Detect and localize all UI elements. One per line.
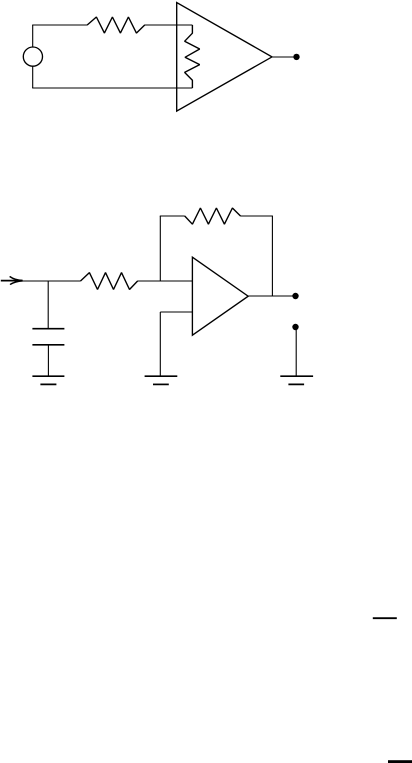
wire [32, 25, 34, 47]
ground [145, 376, 178, 384]
input arrow [1, 276, 23, 284]
wire [159, 312, 161, 376]
op-amp U1 [177, 3, 272, 112]
source VS1 [23, 47, 42, 66]
wire [160, 311, 192, 313]
node: output dot [292, 293, 298, 299]
resistor R4 (feedback) [185, 208, 241, 224]
node: reference dot [292, 324, 298, 330]
page corner bar [388, 760, 412, 763]
horizontal rule (fraction bar fragment) [373, 617, 397, 619]
wire [32, 24, 87, 26]
wire [145, 24, 193, 26]
wire [47, 345, 49, 376]
wire [137, 280, 192, 282]
wire [32, 87, 192, 89]
wire [248, 295, 295, 297]
wire [22, 280, 80, 282]
ground [280, 376, 313, 384]
wire [271, 216, 273, 296]
wire [47, 281, 49, 329]
op-amp U2 [192, 257, 248, 335]
resistor R1 [87, 17, 145, 33]
resistor R3 [81, 273, 138, 290]
wire [295, 327, 297, 376]
node: output dot [293, 54, 299, 60]
wire [272, 56, 297, 58]
wire [159, 216, 161, 281]
wire [240, 215, 273, 217]
resistor R2 (op-amp input resistance, vertical) [185, 25, 200, 88]
ground [32, 376, 64, 384]
wire [160, 215, 185, 217]
wire [32, 66, 34, 88]
capacitor C1 [32, 329, 64, 345]
